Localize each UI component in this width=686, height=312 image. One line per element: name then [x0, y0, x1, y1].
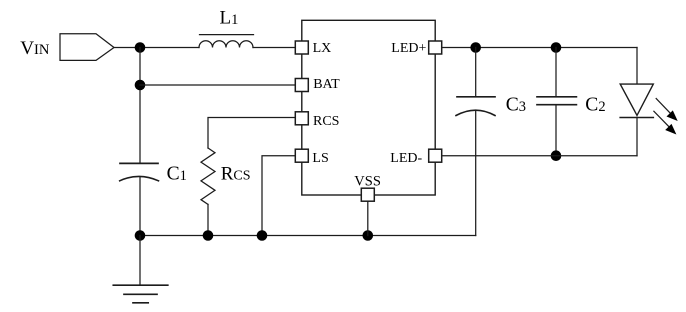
- wire LS pin to ground rail: [262, 156, 295, 236]
- svg-text:RCS: RCS: [313, 114, 339, 129]
- capacitor C1 curved bottom plate: [120, 176, 159, 180]
- wire inductor to LX pin: [253, 47, 295, 49]
- pin BAT: [295, 79, 308, 92]
- node junction C2 top: [551, 42, 562, 53]
- capacitor C2 plates: [537, 96, 576, 98]
- node junction C2 bottom / LED- wire: [551, 150, 562, 161]
- wire BAT node to BAT pin: [140, 84, 295, 86]
- capacitor C2 bottom lead: [555, 105, 557, 156]
- svg-text:LX: LX: [313, 41, 332, 56]
- capacitor C3 curved bottom plate: [456, 110, 495, 115]
- node junction C1/ground: [135, 230, 146, 241]
- wire VSS pin down to rail: [367, 201, 369, 235]
- diode D1 cathode bar: [620, 117, 653, 119]
- pin VSS: [361, 188, 374, 201]
- ground: [139, 236, 141, 286]
- pin LED+: [429, 41, 442, 54]
- label RCS: [221, 163, 251, 184]
- connector VIN (input terminal pentagon): [60, 34, 114, 61]
- node junction LS/rail: [257, 230, 268, 241]
- svg-text:VSS: VSS: [354, 173, 381, 189]
- svg-text:LS: LS: [312, 151, 328, 166]
- op-amp U1 (IC body): [302, 20, 435, 195]
- capacitor C2 top lead: [555, 48, 557, 97]
- node junction RCS/rail: [203, 230, 214, 241]
- pin RCS: [295, 112, 308, 125]
- wire rail right end up to C3 branch: [475, 111, 477, 236]
- LED emission arrow 2: [654, 111, 677, 134]
- svg-text:LED-: LED-: [390, 151, 422, 166]
- capacitor C1 top plate: [120, 162, 158, 164]
- ground rail wire: [140, 235, 476, 237]
- diode D1 (LED) triangle: [620, 84, 653, 115]
- wire LED anode down: [636, 48, 638, 85]
- pin LX: [295, 41, 308, 54]
- wire LED+ pin to LED anode corner: [442, 47, 637, 49]
- node junction C3 top: [470, 42, 481, 53]
- label C1: [167, 163, 187, 184]
- pin LS: [295, 149, 308, 162]
- node VIN label: [20, 38, 50, 59]
- wire VIN to inductor: [114, 47, 199, 49]
- pin LED-: [429, 149, 442, 162]
- inductor L1 bar: [200, 34, 254, 36]
- node junction VSS/rail: [363, 230, 374, 241]
- label C3: [506, 94, 526, 115]
- label L1: [220, 8, 239, 29]
- wire resistor bottom to ground rail: [207, 204, 209, 235]
- LED emission arrow 1: [656, 99, 678, 122]
- capacitor C3 top lead: [475, 48, 477, 97]
- wire RCS pin to resistor top: [208, 118, 295, 149]
- wire LED- pin to LED cathode: [442, 155, 637, 157]
- wire vertical VIN node down to C1: [139, 48, 141, 164]
- node junction BAT branch: [135, 80, 146, 91]
- inductor L1: [199, 41, 253, 48]
- svg-text:BAT: BAT: [313, 77, 340, 92]
- svg-text:VIN: VIN: [20, 38, 50, 59]
- label C2: [585, 94, 605, 115]
- wire C1 bottom to ground rail: [139, 177, 141, 236]
- wire LED cathode down: [636, 118, 638, 156]
- node junction VIN/C1/BAT: [135, 42, 146, 53]
- svg-text:LED+: LED+: [391, 41, 426, 56]
- capacitor C3 top plate: [457, 96, 495, 98]
- resistor RCS: [201, 148, 215, 204]
